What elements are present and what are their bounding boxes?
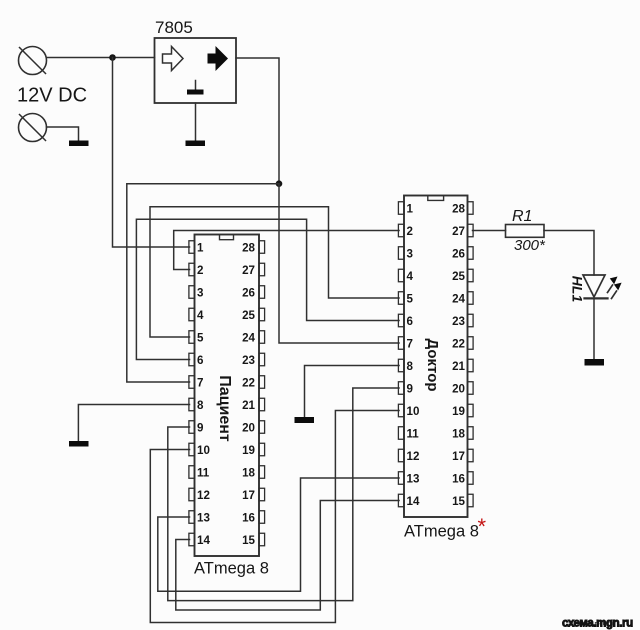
wire U1 pin2 to U2 pin2 [174,231,399,270]
svg-text:7: 7 [197,376,203,389]
svg-text:14: 14 [197,534,210,547]
pin numbers U1 left [197,241,210,547]
svg-text:19: 19 [242,444,255,457]
wire U2 pin8 to ground [305,366,400,418]
svg-text:25: 25 [452,270,465,283]
svg-text:13: 13 [197,511,210,524]
pin numbers U1 right [242,241,255,547]
wire U1 pin8 to ground [78,405,189,442]
svg-text:схема.mgn.ru: схема.mgn.ru [577,621,613,627]
wire U1 pin10 to U2 pin10 [150,411,399,623]
svg-text:8: 8 [197,399,204,412]
wire R1 to LED [544,231,594,276]
svg-text:12V DC: 12V DC [17,85,87,107]
IC U2 pins 15-28 boxes [468,202,474,507]
wire 12V to U1 pin1 [113,58,190,248]
svg-text:17: 17 [242,489,255,502]
IC U1 ATmega8 body [195,235,260,557]
regulator common pin symbol [187,81,204,95]
svg-text:*: * [478,514,487,539]
svg-text:26: 26 [452,247,465,260]
svg-text:16: 16 [242,511,255,524]
svg-text:ATmega 8: ATmega 8 [194,560,269,578]
svg-text:23: 23 [242,354,255,367]
svg-text:6: 6 [407,315,414,328]
pin numbers U2 right [452,202,465,508]
svg-text:3: 3 [407,247,414,260]
svg-text:18: 18 [452,427,465,440]
wire 5V to U1 pin7 [127,184,279,382]
svg-text:11: 11 [197,466,210,479]
svg-text:10: 10 [197,444,210,457]
IC U1 pins 15-28 boxes [259,241,265,546]
svg-text:28: 28 [242,241,255,254]
svg-text:5: 5 [407,292,414,305]
input arrow (hollow) [163,47,184,71]
svg-text:9: 9 [407,382,414,395]
svg-text:13: 13 [407,472,420,485]
svg-text:12: 12 [197,489,210,502]
ground (input) [69,141,89,147]
ground (U1 pin8) [69,441,89,447]
svg-text:18: 18 [242,466,255,479]
svg-text:16: 16 [452,472,465,485]
svg-text:23: 23 [452,315,465,328]
svg-text:11: 11 [407,427,420,440]
svg-text:15: 15 [242,534,255,547]
svg-text:8: 8 [407,360,414,373]
svg-text:6: 6 [197,354,204,367]
svg-text:27: 27 [452,225,465,238]
svg-text:25: 25 [242,309,255,322]
node 5V junction [276,180,283,187]
svg-text:12: 12 [407,450,420,463]
wire 7805 common to ground [195,103,197,141]
svg-text:Пациент: Пациент [216,375,233,442]
wire 7805 output 5V [236,58,279,184]
svg-text:14: 14 [407,495,420,508]
IC U2 pins 1-14 boxes [398,202,404,507]
svg-text:9: 9 [197,421,204,434]
wire X1 to 7805 input [47,57,155,59]
svg-text:26: 26 [242,286,255,299]
svg-text:3: 3 [197,286,204,299]
svg-text:15: 15 [452,495,465,508]
wire U1 pin6 to U2 pin6 [136,219,399,359]
svg-text:20: 20 [242,421,255,434]
svg-text:21: 21 [242,399,255,412]
IC U1 pins 1-14 boxes [189,241,195,546]
svg-text:4: 4 [407,270,414,283]
svg-text:ATmega 8: ATmega 8 [404,523,479,541]
wire U2 pin27 to R1 [473,230,506,232]
wire U1 pin13 to U2 pin13 [158,478,399,591]
svg-text:20: 20 [452,382,465,395]
wire U1 pin9 to U2 pin9 [168,388,399,601]
svg-text:300*: 300* [514,237,546,254]
connector X2 (12V return) [19,114,47,142]
watermark [562,618,633,630]
IC U1 notch [220,235,234,240]
output arrow (filled) [208,46,229,71]
resistor R1 [506,225,545,238]
ground (LED) [585,359,605,366]
IC U2 ATmega8 body [404,196,468,518]
ground (U2 pin8) [295,417,315,423]
regulator U3 7805 box [155,38,237,103]
svg-text:24: 24 [242,331,255,344]
svg-text:17: 17 [452,450,465,463]
wire U1 pin5 to U2 pin5 [150,207,399,337]
svg-text:7: 7 [407,337,413,350]
svg-text:Доктор: Доктор [424,338,441,391]
wire U1 pin14 to U2 pin14 [176,501,399,611]
svg-text:7805: 7805 [155,18,193,37]
IC U2 notch [428,196,444,200]
svg-text:5: 5 [197,331,204,344]
wire 5V to U2 pin7 [279,184,399,343]
svg-text:R1: R1 [512,208,532,225]
ground (7805) [186,141,206,147]
wire LED to ground [593,298,595,359]
svg-text:HL1: HL1 [570,276,586,303]
pin numbers U2 left [407,202,420,508]
connector X1 (12V positive input) [19,47,47,75]
node 12V junction [109,54,116,61]
wire X2 to ground [47,127,79,141]
svg-text:2: 2 [407,225,413,238]
svg-text:10: 10 [407,405,420,418]
svg-text:21: 21 [452,360,465,373]
svg-text:27: 27 [242,264,255,277]
svg-text:24: 24 [452,292,465,305]
svg-text:22: 22 [242,376,255,389]
LED HL1 [583,275,622,299]
svg-text:19: 19 [452,405,465,418]
svg-text:2: 2 [197,264,203,277]
svg-text:1: 1 [197,241,204,254]
svg-text:28: 28 [452,202,465,215]
svg-text:1: 1 [407,202,414,215]
svg-text:4: 4 [197,309,204,322]
svg-text:22: 22 [452,337,465,350]
